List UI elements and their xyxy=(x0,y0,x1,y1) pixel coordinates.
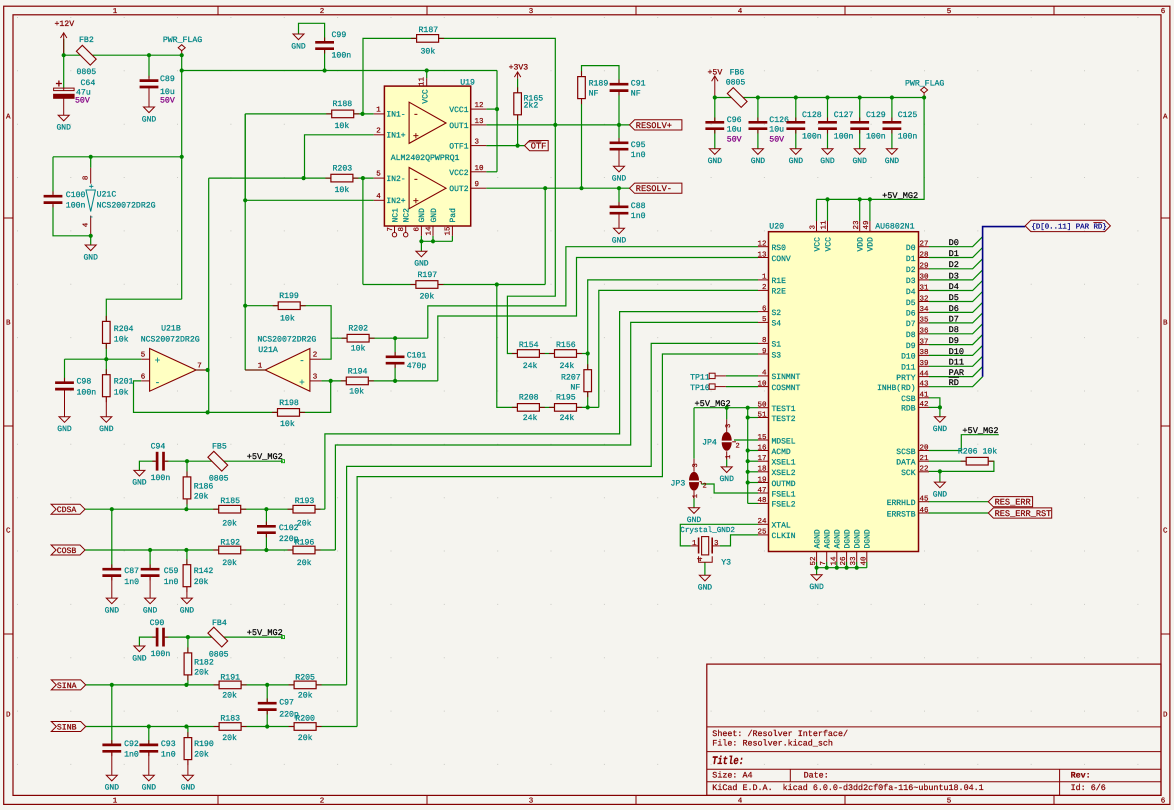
svg-text:SINB: SINB xyxy=(57,723,77,732)
svg-text:GND: GND xyxy=(291,42,306,51)
svg-text:2: 2 xyxy=(320,797,325,806)
svg-text:4: 4 xyxy=(738,798,743,806)
wire vertical from PWR_FLAG junction x=182 xyxy=(181,55,183,299)
svg-text:29: 29 xyxy=(920,262,929,271)
svg-text:IN1-: IN1- xyxy=(386,111,405,120)
wire PWR_FLAG2 to +5V_MG2 row xyxy=(817,98,925,200)
ground GND under R142 xyxy=(181,598,192,604)
svg-text:2k2: 2k2 xyxy=(524,101,539,110)
svg-text:R192: R192 xyxy=(220,539,240,548)
capacitor C89 xyxy=(148,76,150,81)
junction U21A pin3 node xyxy=(329,379,333,383)
svg-text:FB2: FB2 xyxy=(79,36,94,45)
svg-text:50V: 50V xyxy=(727,135,742,144)
svg-text:SCSB: SCSB xyxy=(896,448,915,457)
resistor R165 xyxy=(517,87,519,93)
U20 pin 7 AGND bottom xyxy=(826,552,828,563)
wire TP10 link xyxy=(726,386,758,388)
wire C129 stems xyxy=(859,98,861,123)
ferrite bead FB6 xyxy=(727,88,747,108)
svg-text:22: 22 xyxy=(920,465,929,474)
svg-text:4: 4 xyxy=(762,370,767,378)
junction RESOLV- at R189 xyxy=(579,186,583,190)
global label RES_ERR xyxy=(988,497,1032,507)
power flag PWR_FLAG xyxy=(181,51,183,56)
IC U20 body xyxy=(769,232,919,552)
svg-text:Date:: Date: xyxy=(804,770,829,780)
U21B pin 6 xyxy=(141,380,149,382)
junction gnd row at U21C pin4 xyxy=(89,234,93,238)
U19 pin 4 IN2+ xyxy=(374,199,385,201)
junction ACMD tap xyxy=(746,448,750,452)
svg-text:12: 12 xyxy=(475,101,484,110)
svg-text:45: 45 xyxy=(920,496,930,504)
wire R187 right to OUT1 xyxy=(439,38,556,125)
svg-text:5: 5 xyxy=(947,798,952,806)
wire JP4 pin2 to MDSEL xyxy=(734,439,758,441)
svg-text:SINMNT: SINMNT xyxy=(772,373,801,382)
svg-text:R154: R154 xyxy=(519,341,539,350)
wire C127 stems xyxy=(827,98,829,123)
wire U21A pin1 output xyxy=(245,369,265,371)
wire R195 right xyxy=(577,406,599,408)
wire OUTMD link xyxy=(748,482,758,484)
svg-text:15: 15 xyxy=(757,434,767,442)
wire U21B pin5 row xyxy=(65,358,142,360)
svg-text:GND: GND xyxy=(83,253,98,262)
junction DGND33 node xyxy=(855,566,859,570)
wire C59 stems xyxy=(149,550,151,569)
junction +5V at C127 xyxy=(825,95,829,99)
svg-text:10k: 10k xyxy=(335,186,350,195)
wire TEST/SEL bus vertical xyxy=(747,408,749,504)
svg-text:NCS20072DR2G: NCS20072DR2G xyxy=(257,335,316,344)
junction U21A out at R199 xyxy=(243,304,247,308)
svg-text:R196: R196 xyxy=(295,539,315,548)
svg-text:100n: 100n xyxy=(151,650,171,659)
U20 pin 6 S2 xyxy=(758,311,769,313)
svg-text:+5V_MG2: +5V_MG2 xyxy=(882,191,918,201)
wire RS0 net from R202 output xyxy=(428,247,758,339)
svg-text:U21C: U21C xyxy=(97,190,117,199)
wire PAR to bus entry xyxy=(929,367,983,377)
resistor R194 xyxy=(341,380,347,382)
wire +5V rail row xyxy=(715,97,924,99)
svg-text:R200: R200 xyxy=(295,715,315,724)
svg-text:VCC: VCC xyxy=(813,237,822,252)
svg-text:GND: GND xyxy=(99,425,114,434)
svg-text:10u: 10u xyxy=(769,125,784,134)
svg-text:S3: S3 xyxy=(772,351,782,360)
capacitor C87 xyxy=(111,564,113,569)
svg-text:GND: GND xyxy=(143,606,158,615)
capacitor C64 polarized xyxy=(63,88,65,91)
wire JP4 pin1 to GND xyxy=(726,460,728,467)
svg-text:D2: D2 xyxy=(949,260,959,270)
resistor R154 xyxy=(512,353,518,355)
svg-text:GND: GND xyxy=(132,654,147,663)
svg-text:1: 1 xyxy=(692,494,700,498)
U20 pin 43 INHB(RD) xyxy=(919,386,930,388)
junction SINA at R182 xyxy=(184,683,188,687)
U20 pin 9 S3 xyxy=(758,353,769,355)
svg-text:8: 8 xyxy=(397,227,406,232)
svg-text:NF: NF xyxy=(631,89,641,98)
junction OTF node xyxy=(516,144,520,148)
U21B pin 7 xyxy=(196,369,208,371)
wire R204 top bracket xyxy=(106,299,181,322)
svg-text:TP10: TP10 xyxy=(690,384,710,393)
ground GND under C64 xyxy=(58,115,69,121)
U20 pin 49 VDD top xyxy=(869,221,871,232)
svg-text:GND: GND xyxy=(687,516,702,525)
ground GND under C128 xyxy=(790,149,801,155)
wire IN1+ route xyxy=(305,135,374,178)
U20 pin 35 D7 xyxy=(919,322,930,324)
wire SCSB pull-up xyxy=(929,435,999,451)
junction VCC at VCC1 xyxy=(495,107,499,111)
wire C88 top stem xyxy=(618,188,620,207)
svg-text:20k: 20k xyxy=(297,520,312,529)
junction SINB at R190 xyxy=(184,724,188,728)
svg-text:FB5: FB5 xyxy=(212,442,227,451)
resistor R187 xyxy=(411,37,417,39)
svg-text:D0: D0 xyxy=(906,244,916,253)
wire COSB row xyxy=(85,549,335,551)
svg-text:C90: C90 xyxy=(150,619,165,628)
U21A pin 3 xyxy=(310,380,322,382)
U20 pin 15 MDSEL xyxy=(758,439,769,441)
svg-text:RES_ERR: RES_ERR xyxy=(995,498,1031,508)
svg-text:CSB: CSB xyxy=(901,395,916,404)
svg-text:GND: GND xyxy=(105,606,120,615)
junction OUT2 branch xyxy=(543,186,547,190)
wire U20 power pin stems xyxy=(816,199,818,221)
wire +12V stem xyxy=(63,39,65,55)
resistor R190 xyxy=(187,732,189,738)
hierarchical label CDSA xyxy=(51,504,85,514)
svg-text:R190: R190 xyxy=(194,740,214,749)
U20 pin 36 D8 xyxy=(919,333,930,335)
svg-text:R207: R207 xyxy=(561,374,581,383)
wire D9 to bus entry xyxy=(929,335,983,345)
svg-text:GND: GND xyxy=(719,475,734,484)
svg-text:FSEL2: FSEL2 xyxy=(772,501,796,510)
global label RESOLV+ xyxy=(630,120,682,130)
svg-text:-: - xyxy=(413,110,419,121)
svg-text:VCC: VCC xyxy=(824,237,833,252)
svg-text:16: 16 xyxy=(757,443,767,452)
svg-text:GND: GND xyxy=(414,260,429,269)
resistor R183 xyxy=(214,726,220,728)
resistor R202 xyxy=(342,337,348,339)
wire VCC distribution row xyxy=(182,70,497,72)
svg-text:24k: 24k xyxy=(523,362,538,371)
svg-text:C89: C89 xyxy=(160,75,175,84)
svg-text:0805: 0805 xyxy=(726,78,746,87)
U20 pin 11 VCC top xyxy=(827,221,829,232)
wire SINA row xyxy=(86,684,347,686)
svg-text:R206 10k: R206 10k xyxy=(958,447,997,456)
wire R201 bottom xyxy=(105,396,107,417)
svg-text:50V: 50V xyxy=(160,97,175,106)
wire R194 left link xyxy=(321,380,346,382)
wire SINB row xyxy=(86,726,357,728)
svg-text:Sheet: /Resolver Interface/: Sheet: /Resolver Interface/ xyxy=(712,729,848,739)
wire OUT1 row to RESOLV+ xyxy=(486,124,629,126)
junction +5V at C125 xyxy=(890,95,894,99)
hierarchical label COSB xyxy=(51,545,85,555)
svg-text:0805: 0805 xyxy=(77,68,97,77)
junction CDSA at C87 xyxy=(110,507,114,511)
svg-text:+: + xyxy=(413,197,419,208)
svg-text:20k: 20k xyxy=(194,578,209,587)
svg-text:D6: D6 xyxy=(949,304,959,314)
U20 pin 42 RDB xyxy=(919,406,930,408)
svg-text:C59: C59 xyxy=(164,567,179,576)
wire C87 column from CDSA xyxy=(111,509,113,569)
wire C94 GND arm xyxy=(139,461,155,470)
svg-text:INHB(RD): INHB(RD) xyxy=(877,384,915,393)
svg-text:41: 41 xyxy=(920,392,930,400)
U20 pin 51 TEST2 xyxy=(758,417,769,419)
svg-text:R203: R203 xyxy=(333,164,353,173)
wire D8 to bus entry xyxy=(929,324,983,334)
svg-text:27: 27 xyxy=(920,240,929,249)
junction +5V_MG2 at VDD23 xyxy=(858,197,862,201)
svg-text:7: 7 xyxy=(387,227,395,232)
ferrite bead FB4 xyxy=(208,627,228,647)
wire R198 feedback xyxy=(134,381,278,413)
wire CDSA row xyxy=(85,508,325,510)
ground GND under C93 xyxy=(143,775,154,781)
svg-text:1n0: 1n0 xyxy=(164,578,179,587)
U20 pin 17 XSEL1 xyxy=(758,460,769,462)
ground GND under JP4 xyxy=(721,467,732,473)
wire R198 right to pin3 node xyxy=(300,381,331,413)
ground GND under R190 xyxy=(182,775,193,781)
svg-text:IN1+: IN1+ xyxy=(386,132,405,141)
svg-text:11: 11 xyxy=(821,220,829,230)
wire R204-R201 column xyxy=(105,343,107,376)
svg-text:GND: GND xyxy=(933,490,948,499)
svg-text:C92: C92 xyxy=(124,740,139,749)
svg-text:S1: S1 xyxy=(772,341,782,350)
junction +12V rail at C89 xyxy=(147,53,151,57)
svg-text:20k: 20k xyxy=(298,734,313,743)
svg-text:ALM2402QPWPRQ1: ALM2402QPWPRQ1 xyxy=(391,154,460,163)
resistor R206 xyxy=(961,460,967,462)
U20 pin 40 DGND bottom xyxy=(866,552,868,563)
svg-text:2: 2 xyxy=(320,7,325,16)
svg-text:R185: R185 xyxy=(220,497,240,506)
svg-text:+5V: +5V xyxy=(708,69,723,78)
svg-text:D10: D10 xyxy=(949,347,964,357)
resistor R195 xyxy=(549,406,555,408)
svg-text:RESOLV-: RESOLV- xyxy=(636,184,672,194)
svg-text:R188: R188 xyxy=(333,100,353,109)
svg-text:R201: R201 xyxy=(114,378,134,387)
svg-text:DATA: DATA xyxy=(896,459,915,468)
svg-text:OUT2: OUT2 xyxy=(449,185,468,194)
ground GND left of C90 xyxy=(134,646,145,652)
svg-text:9: 9 xyxy=(475,180,480,189)
svg-text:5: 5 xyxy=(376,171,381,179)
svg-text:D9: D9 xyxy=(949,336,959,346)
svg-text:S2: S2 xyxy=(772,309,782,318)
wire IN2+ row xyxy=(245,199,374,201)
junction COSB at C59 xyxy=(148,548,152,552)
svg-text:TEST2: TEST2 xyxy=(772,415,796,424)
hierarchical label SINB xyxy=(51,722,85,732)
wire C95 top stem xyxy=(618,125,620,143)
svg-text:RES_ERR_RST: RES_ERR_RST xyxy=(995,509,1052,519)
capacitor C101 xyxy=(394,352,396,357)
junction U19 gnd pin14 xyxy=(431,239,435,243)
U19 pin 5 IN2- xyxy=(374,177,385,179)
svg-text:100n: 100n xyxy=(866,132,886,141)
resistor R208 xyxy=(512,406,518,408)
capacitor C100 xyxy=(52,191,54,196)
wire C90 to FB4 row xyxy=(165,636,283,638)
junction SINA at C97 xyxy=(265,683,269,687)
junction C94-FB5 node xyxy=(185,459,189,463)
U20 pin 23 VDD top xyxy=(859,221,861,232)
junction R197 row at R208 feed xyxy=(495,282,499,286)
junction DGND26 node xyxy=(845,566,849,570)
junction +12V rail at PWR_FLAG xyxy=(180,53,184,57)
junction RESOLV+ at C95 xyxy=(617,123,621,127)
svg-text:8: 8 xyxy=(82,176,91,181)
svg-text:D: D xyxy=(1163,712,1168,720)
svg-text:GND: GND xyxy=(180,606,195,615)
svg-text:B: B xyxy=(1163,320,1168,328)
wire C89 stem xyxy=(148,55,150,78)
svg-text:14: 14 xyxy=(425,226,433,236)
wire R197 output to R208 xyxy=(497,285,518,408)
wire U21C pin4 to GND xyxy=(90,235,92,245)
junction +5V_MG2 at VDD49 xyxy=(868,197,872,201)
wire R203 output to R197 xyxy=(362,178,364,284)
svg-text:20k: 20k xyxy=(194,493,209,502)
svg-text:CONV: CONV xyxy=(772,255,791,264)
capacitor C59 xyxy=(149,564,151,569)
svg-text:13: 13 xyxy=(475,117,485,126)
svg-text:D4: D4 xyxy=(949,282,959,292)
global label RES_ERR_RST xyxy=(988,508,1051,518)
svg-text:5: 5 xyxy=(762,316,767,324)
svg-text:NC2: NC2 xyxy=(403,208,412,223)
U20 pin 10 COSMNT xyxy=(758,386,769,388)
svg-text:JP4: JP4 xyxy=(702,439,717,448)
wire D4 to bus entry xyxy=(929,281,983,291)
svg-text:+: + xyxy=(155,356,160,366)
wire RD to bus entry xyxy=(929,377,983,387)
ground GND under U19 xyxy=(416,251,427,257)
wire U21C pin8 stub xyxy=(90,157,92,168)
svg-text:C96: C96 xyxy=(727,116,742,125)
U21A pin 2 xyxy=(310,358,322,360)
ground GND left of C99 xyxy=(293,34,304,40)
svg-text:20k: 20k xyxy=(298,692,313,701)
resistor R192 xyxy=(213,549,219,551)
U19 pin 11 VCC top xyxy=(426,78,428,86)
svg-text:Title:: Title: xyxy=(712,755,744,768)
svg-text:4: 4 xyxy=(83,222,91,227)
svg-text:IN2-: IN2- xyxy=(386,175,405,184)
svg-text:VCC2: VCC2 xyxy=(449,169,468,178)
wire S4 net from R196 xyxy=(335,322,758,550)
U20 pin 31 D4 xyxy=(919,290,930,292)
svg-text:7: 7 xyxy=(820,561,828,566)
svg-text:R191: R191 xyxy=(220,674,240,683)
svg-text:A: A xyxy=(1163,114,1168,122)
wire C96 stems xyxy=(714,98,716,123)
svg-text:SCK: SCK xyxy=(901,469,916,478)
svg-text:PWR_FLAG: PWR_FLAG xyxy=(905,79,944,88)
svg-text:100n: 100n xyxy=(834,132,854,141)
svg-text:1n0: 1n0 xyxy=(631,151,646,160)
U20 pin 50 TEST1 xyxy=(758,407,769,409)
wire ERRSTB row xyxy=(929,512,989,514)
svg-text:VDD: VDD xyxy=(857,237,866,252)
U20 pin 24 XTAL xyxy=(758,523,769,525)
U20 pin 38 D10 xyxy=(919,354,930,356)
svg-text:42: 42 xyxy=(920,400,929,409)
wire S3 net from R200 xyxy=(357,354,758,727)
svg-text:C128: C128 xyxy=(802,111,822,120)
wire DATA to R206 xyxy=(929,460,966,462)
junction SINA at C92 xyxy=(110,683,114,687)
wire R203 row IN1+ net xyxy=(209,177,374,179)
svg-text:Id: 6/6: Id: 6/6 xyxy=(1071,783,1106,793)
U20 pin 19 OUTMD xyxy=(758,482,769,484)
op-amp U19 body xyxy=(384,86,470,226)
svg-text:10k: 10k xyxy=(114,335,129,344)
ground GND under C88 xyxy=(614,228,625,234)
svg-text:R182: R182 xyxy=(194,659,214,668)
svg-text:D8: D8 xyxy=(906,331,916,340)
U19 pin 1 IN1- xyxy=(374,113,385,115)
svg-text:C125: C125 xyxy=(898,111,918,120)
wire CONV net from R194 output xyxy=(438,258,758,381)
svg-text:A: A xyxy=(6,114,11,122)
wire SCK pin xyxy=(929,470,940,472)
svg-text:2: 2 xyxy=(736,443,740,451)
svg-text:3: 3 xyxy=(313,372,318,381)
svg-text:50V: 50V xyxy=(769,135,784,144)
wire D2 to bus entry xyxy=(929,259,983,269)
svg-text:ACMD: ACMD xyxy=(772,448,791,457)
junction IN2+ node xyxy=(243,198,247,202)
ground GND under JP3 xyxy=(689,508,700,514)
svg-text:1n0: 1n0 xyxy=(124,750,139,759)
title block xyxy=(707,664,1161,795)
svg-text:-: - xyxy=(89,213,94,222)
wire C98 stems xyxy=(64,359,66,382)
wire C125 stems xyxy=(891,98,893,123)
svg-text:100n: 100n xyxy=(898,132,918,141)
U20 pin 33 DGND bottom xyxy=(856,552,858,563)
svg-text:GND: GND xyxy=(132,479,147,488)
svg-text:S4: S4 xyxy=(772,320,782,329)
U19 amp1 triangle xyxy=(409,102,446,143)
svg-text:RESOLV+: RESOLV+ xyxy=(636,121,672,131)
svg-text:U20: U20 xyxy=(769,223,784,232)
svg-text:MDSEL: MDSEL xyxy=(772,437,796,446)
resistor R197 xyxy=(410,284,416,286)
capacitor C127 xyxy=(827,118,829,123)
